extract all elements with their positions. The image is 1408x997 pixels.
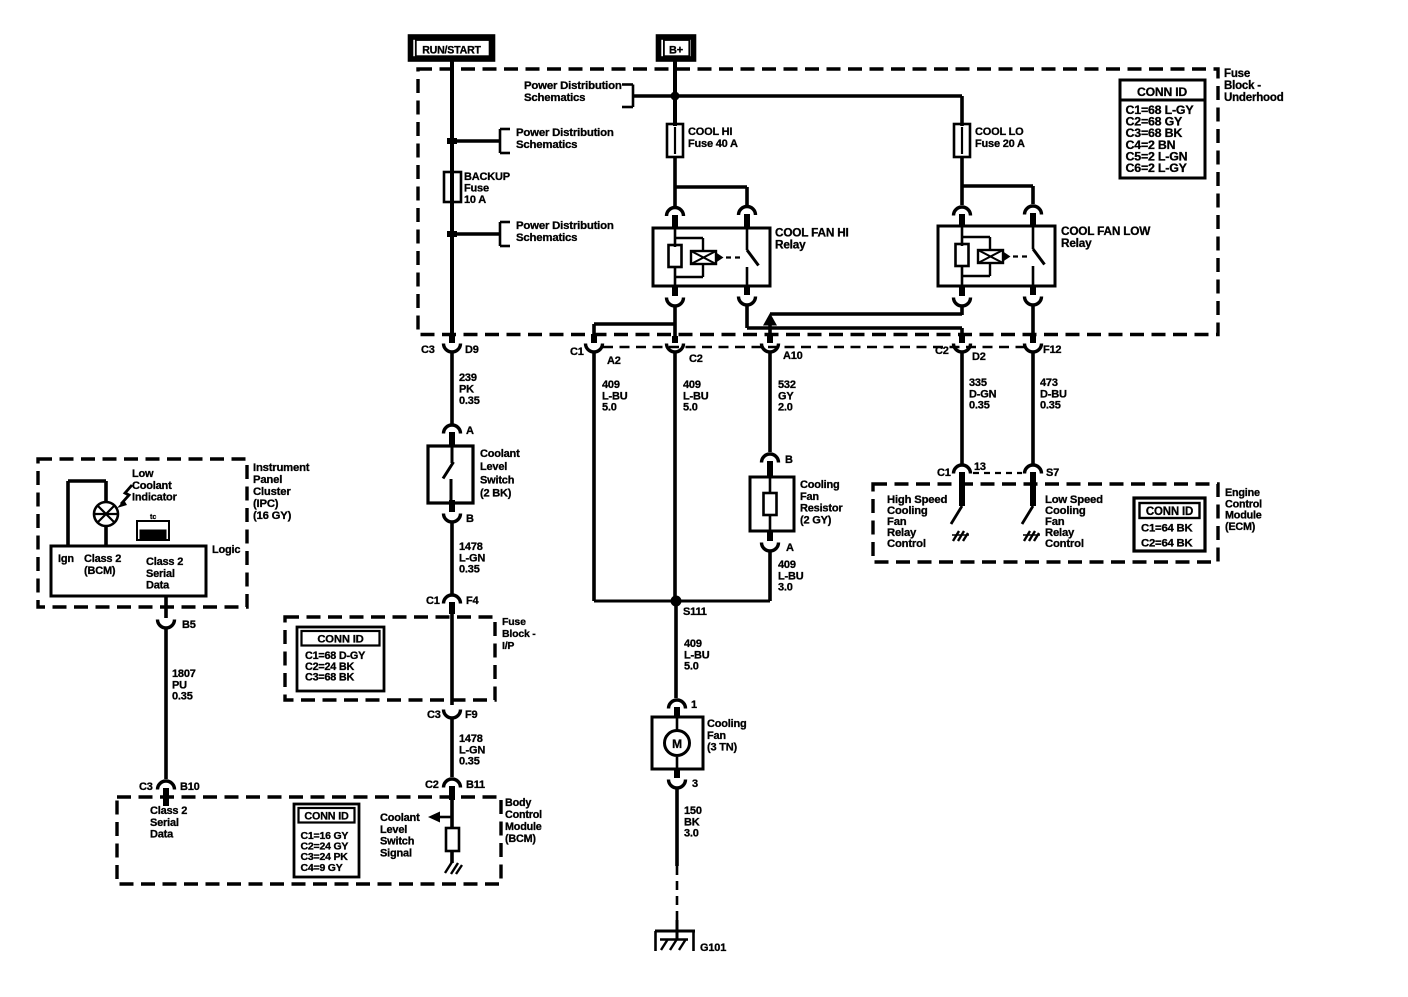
connector cap resistor pin B: [762, 454, 794, 477]
svg-text:CONN ID: CONN ID: [317, 634, 363, 646]
svg-text:0.35: 0.35: [459, 395, 480, 407]
svg-text:C1: C1: [426, 595, 440, 607]
svg-text:Cluster: Cluster: [253, 486, 291, 498]
conn id table underhood: [1120, 80, 1205, 178]
wire 1807 PU 0.35: [166, 628, 196, 779]
svg-text:Panel: Panel: [253, 474, 282, 486]
conn id table IP: [297, 627, 384, 691]
logic box IPC: [51, 546, 206, 596]
wire 409 L-BU 5.0 C2: [675, 352, 709, 601]
label class2 serial data IPC: [146, 556, 183, 592]
svg-text:D2: D2: [972, 351, 986, 363]
label fuse COOL HI: [688, 126, 738, 150]
svg-text:Switch: Switch: [380, 836, 415, 848]
indicator lamp low coolant: [94, 502, 118, 526]
svg-text:(BCM): (BCM): [505, 833, 536, 845]
connector cap fan pin 1: [669, 699, 698, 718]
svg-text:Schematics: Schematics: [516, 139, 577, 151]
relay COOL FAN HI switch: [747, 228, 759, 286]
label relay COOL FAN HI: [775, 226, 849, 252]
ground G101: [655, 920, 726, 954]
svg-text:(ECM): (ECM): [1225, 521, 1256, 533]
label IPC: [253, 462, 310, 522]
conn id table ECM: [1134, 498, 1205, 551]
relay COOL FAN LOW coil X-box: [978, 250, 1011, 263]
power feed RUN/START box: [411, 37, 493, 59]
svg-text:L-BU: L-BU: [602, 390, 628, 402]
svg-text:CONN ID: CONN ID: [304, 811, 349, 823]
relay COOL FAN LOW coil: [956, 226, 991, 286]
fuse BACKUP 10A: [444, 172, 461, 202]
svg-text:A10: A10: [783, 350, 803, 362]
svg-text:C3: C3: [421, 344, 435, 356]
svg-text:(BCM): (BCM): [84, 565, 116, 577]
wire COOL LO fuse to relay split: [962, 157, 1033, 205]
svg-text:Power Distribution: Power Distribution: [516, 220, 614, 232]
body control module dashed enclosure: [117, 797, 501, 884]
label coolant level switch: [480, 448, 520, 500]
wire 409 L-BU 5.0 A2: [594, 352, 628, 601]
wire indicator to logic: [104, 526, 108, 546]
svg-text:PU: PU: [172, 679, 187, 691]
connector cap relay LOW pin 30: [954, 207, 971, 226]
svg-text:Schematics: Schematics: [524, 92, 585, 104]
svg-text:Coolant: Coolant: [480, 448, 520, 460]
svg-text:(2 GY): (2 GY): [800, 514, 832, 526]
svg-text:Resistor: Resistor: [800, 503, 843, 515]
wire BCM resistor to ground: [450, 851, 454, 863]
fuse block underhood dashed enclosure: [418, 69, 1218, 335]
resistor BCM pullup: [446, 828, 459, 851]
svg-text:S111: S111: [683, 606, 707, 618]
svg-text:BK: BK: [684, 816, 700, 828]
junction tick 1: [447, 141, 457, 234]
svg-text:C3: C3: [427, 709, 441, 721]
svg-text:C3=68 BK: C3=68 BK: [305, 672, 355, 684]
svg-text:F12: F12: [1043, 344, 1061, 356]
svg-text:2.0: 2.0: [778, 402, 793, 414]
svg-text:1: 1: [691, 699, 697, 711]
svg-text:0.35: 0.35: [969, 400, 990, 412]
svg-text:CONN ID: CONN ID: [1146, 506, 1193, 518]
conn id table BCM: [294, 804, 359, 877]
junction tick B+ bus: [671, 92, 680, 101]
label class 2 serial data BCM: [150, 805, 187, 841]
svg-text:Low: Low: [132, 468, 154, 480]
connector cap relay HI pin 30: [667, 208, 684, 229]
svg-text:S7: S7: [1046, 467, 1059, 479]
svg-text:Fuse 40 A: Fuse 40 A: [688, 138, 738, 150]
svg-text:B: B: [466, 513, 474, 525]
svg-text:Block -: Block -: [502, 628, 536, 640]
svg-text:C2=64 BK: C2=64 BK: [1141, 538, 1194, 550]
svg-text:Control: Control: [887, 538, 926, 550]
wire 150 BK 3.0: [677, 787, 702, 866]
ground BCM internal: [445, 862, 462, 874]
label fuse BACKUP: [464, 171, 510, 206]
svg-text:0.35: 0.35: [459, 564, 480, 576]
label class2 bcm: [84, 553, 121, 577]
svg-text:Switch: Switch: [480, 474, 515, 486]
svg-text:5.0: 5.0: [602, 402, 617, 414]
label cooling fan: [707, 718, 747, 754]
svg-text:C3: C3: [139, 781, 153, 793]
svg-text:Fan: Fan: [800, 491, 819, 503]
svg-text:Fuse: Fuse: [1224, 68, 1250, 80]
connector C2 fan feed: [667, 336, 703, 365]
svg-text:Schematics: Schematics: [516, 232, 577, 244]
svg-text:B11: B11: [466, 779, 485, 791]
svg-text:C2: C2: [425, 779, 439, 791]
wire relay LOW coil output to F12: [1031, 305, 1035, 341]
svg-text:A: A: [466, 425, 474, 437]
svg-text:L-GN: L-GN: [459, 744, 485, 756]
svg-text:0.35: 0.35: [172, 691, 193, 703]
switch S coolant level contact: [443, 446, 454, 503]
indicator arrow: [117, 485, 132, 508]
svg-text:C4=9 GY: C4=9 GY: [301, 862, 343, 874]
connector cup relay LOW pin 86: [1025, 286, 1042, 305]
svg-text:C1: C1: [937, 467, 951, 479]
svg-text:409: 409: [684, 638, 702, 650]
svg-text:Control: Control: [505, 809, 542, 821]
wire relay HI coil output to C2-D2: [747, 305, 962, 341]
svg-text:Control: Control: [1045, 538, 1084, 550]
connector C1-F4: [426, 595, 480, 614]
svg-text:Level: Level: [480, 461, 507, 473]
branch wire to power distribution 2: [452, 222, 510, 246]
connector S7: [1025, 465, 1060, 479]
svg-text:Instrument: Instrument: [253, 462, 310, 474]
wire RUN/START down to connector C3-D9: [450, 60, 454, 341]
svg-text:3: 3: [692, 778, 698, 790]
label ign: [58, 553, 74, 565]
svg-text:Control: Control: [1225, 498, 1262, 510]
svg-text:D-BU: D-BU: [1040, 388, 1067, 400]
svg-text:Fuse 20 A: Fuse 20 A: [975, 138, 1025, 150]
svg-text:Data: Data: [150, 829, 174, 841]
relay COOL FAN LOW box: [938, 226, 1055, 286]
svg-text:Relay: Relay: [1061, 236, 1092, 250]
svg-text:C6=2 L-GY: C6=2 L-GY: [1126, 161, 1188, 175]
svg-text:M: M: [672, 737, 682, 751]
wire IPC ign feed: [68, 481, 106, 546]
wire splice bus: [594, 600, 770, 603]
svg-text:Fuse: Fuse: [464, 183, 489, 195]
connector F12: [1025, 336, 1062, 356]
relay COOL FAN LOW switch: [1033, 226, 1045, 286]
wire BCM internal: [450, 800, 454, 828]
ground ECM low speed: [1023, 531, 1040, 541]
relay COOL FAN HI coil X-box: [691, 251, 724, 264]
connector cup resistor pin A: [762, 531, 795, 554]
svg-text:0.35: 0.35: [1040, 400, 1061, 412]
svg-text:A2: A2: [607, 355, 621, 367]
connector B5: [158, 619, 196, 631]
svg-text:Underhood: Underhood: [1224, 92, 1284, 104]
label Fuse Block Underhood: [1224, 68, 1284, 104]
motor cooling fan box: [652, 717, 703, 769]
wire relay LOW switch output to A10: [770, 305, 962, 315]
svg-text:GY: GY: [778, 390, 794, 402]
svg-text:Coolant: Coolant: [132, 480, 172, 492]
svg-text:409: 409: [683, 379, 701, 391]
svg-text:13: 13: [974, 461, 986, 473]
ECM driver low speed switch: [1022, 472, 1033, 524]
wire 532 GY 2.0: [770, 352, 796, 452]
svg-text:Relay: Relay: [775, 238, 806, 252]
connector row dashed line: [603, 346, 1028, 348]
label fuse block IP: [502, 616, 536, 652]
connector C1-A2: [570, 334, 621, 367]
fuse block IP dashed enclosure: [285, 617, 495, 700]
ECM driver high speed switch: [951, 472, 962, 524]
label ECM: [1225, 487, 1262, 533]
svg-text:Class 2: Class 2: [146, 556, 183, 568]
ground ECM high speed: [952, 531, 969, 541]
wire 473 D-BU 0.35: [1033, 352, 1067, 464]
wire through fuse block IP: [450, 614, 454, 705]
wire 1478 L-GN 0.35 upper: [452, 521, 485, 594]
svg-text:L-GN: L-GN: [459, 552, 485, 564]
svg-text:C2: C2: [935, 345, 949, 357]
svg-text:239: 239: [459, 372, 477, 384]
svg-text:CONN ID: CONN ID: [1137, 85, 1187, 99]
connector cup fan pin 3: [669, 769, 699, 790]
ECM connector row dashed: [973, 472, 1022, 474]
branch wire to power distribution 1: [452, 129, 510, 153]
svg-text:PK: PK: [459, 384, 474, 396]
wire IPC to B5: [164, 596, 168, 618]
connector cup relay HI pin 86: [739, 286, 756, 305]
engine control module dashed enclosure: [873, 484, 1218, 562]
wire 409 L-BU 3.0: [770, 550, 804, 601]
svg-text:(2 BK): (2 BK): [480, 488, 512, 500]
svg-text:409: 409: [778, 559, 796, 571]
svg-text:L-BU: L-BU: [684, 649, 710, 661]
node arrow junction at A10: [763, 313, 777, 341]
wire B+ horizontal bus to power distribution and COOL LO: [622, 85, 962, 127]
svg-text:0.35: 0.35: [459, 756, 480, 768]
relay COOL FAN HI mechanical link dashed: [726, 256, 742, 258]
svg-text:F9: F9: [465, 709, 478, 721]
svg-text:Fuse: Fuse: [502, 616, 526, 628]
relay COOL FAN LOW mechanical link dashed: [1013, 255, 1029, 257]
connector C2-B11: [425, 779, 485, 800]
svg-text:B: B: [785, 454, 793, 466]
svg-text:(16 GY): (16 GY): [253, 510, 292, 522]
svg-text:(3 TN): (3 TN): [707, 742, 738, 754]
svg-text:L-BU: L-BU: [778, 570, 804, 582]
label power distribution 2: [516, 220, 614, 244]
svg-text:532: 532: [778, 379, 796, 391]
svg-text:1478: 1478: [459, 733, 483, 745]
svg-text:150: 150: [684, 805, 702, 817]
fuse COOL LO 20A: [954, 124, 970, 157]
svg-text:Logic: Logic: [212, 544, 240, 556]
svg-text:I/P: I/P: [502, 640, 514, 652]
motor cooling fan M: [665, 717, 690, 769]
svg-text:D9: D9: [465, 344, 479, 356]
svg-text:Power Distribution: Power Distribution: [524, 80, 622, 92]
svg-text:Indicator: Indicator: [132, 492, 178, 504]
svg-text:Fan: Fan: [707, 730, 726, 742]
svg-text:A: A: [786, 542, 794, 554]
label BCM: [505, 797, 542, 845]
svg-text:tc: tc: [150, 514, 156, 521]
label power distribution 1: [516, 127, 614, 151]
wire B+ down to COOL HI fuse: [673, 59, 677, 126]
connector cap relay HI pin 85: [739, 207, 756, 228]
svg-text:Class 2: Class 2: [84, 553, 121, 565]
relay COOL FAN HI coil: [669, 228, 704, 286]
wire 409 L-BU 5.0 to fan: [676, 601, 710, 698]
wire relay HI switch output to C1-A2 and C2: [594, 305, 675, 341]
svg-text:3.0: 3.0: [684, 828, 699, 840]
svg-text:3.0: 3.0: [778, 582, 793, 594]
svg-text:Level: Level: [380, 824, 407, 836]
wire COOL HI fuse to relay split: [675, 157, 747, 207]
connector cup relay LOW pin 87: [954, 286, 971, 306]
svg-text:Cooling: Cooling: [707, 718, 747, 730]
svg-text:1478: 1478: [459, 541, 483, 553]
svg-text:Block -: Block -: [1224, 80, 1261, 92]
svg-text:Ign: Ign: [58, 553, 74, 565]
svg-text:473: 473: [1040, 377, 1058, 389]
svg-text:BACKUP: BACKUP: [464, 171, 510, 183]
svg-text:Serial: Serial: [150, 817, 179, 829]
label fuse COOL LO: [975, 126, 1025, 150]
svg-text:Signal: Signal: [380, 847, 412, 859]
wire 335 D-GN 0.35: [962, 352, 997, 464]
svg-text:(IPC): (IPC): [253, 498, 279, 510]
svg-text:5.0: 5.0: [683, 402, 698, 414]
svg-text:L-BU: L-BU: [683, 390, 709, 402]
instrument panel cluster dashed enclosure: [38, 459, 247, 607]
label logic: [212, 544, 240, 556]
power feed B+ box: [659, 37, 694, 59]
fuse COOL HI 40A: [667, 124, 683, 157]
svg-text:COOL LO: COOL LO: [975, 126, 1024, 138]
svg-text:C1=64 BK: C1=64 BK: [1141, 523, 1194, 535]
svg-text:5.0: 5.0: [684, 661, 699, 673]
svg-text:Cooling: Cooling: [800, 479, 840, 491]
switch S coolant level box: [428, 446, 473, 503]
svg-text:10 A: 10 A: [464, 194, 486, 206]
svg-text:B+: B+: [669, 45, 683, 57]
connector cap relay LOW pin 85: [1025, 206, 1042, 226]
label cooling fan resistor: [800, 479, 843, 526]
svg-text:C1: C1: [570, 346, 584, 358]
connector C2-D2: [935, 336, 986, 363]
svg-text:Body: Body: [505, 797, 531, 809]
svg-text:Power Distribution: Power Distribution: [516, 127, 614, 139]
svg-text:RUN/START: RUN/START: [422, 45, 481, 57]
svg-text:B5: B5: [182, 619, 196, 631]
svg-text:G101: G101: [700, 942, 726, 954]
svg-text:Serial: Serial: [146, 568, 175, 580]
resistor cooling fan element: [764, 477, 777, 531]
connector cup switch pin B: [444, 500, 475, 525]
svg-text:Module: Module: [505, 821, 542, 833]
svg-text:Engine: Engine: [1225, 487, 1260, 499]
connector cap switch pin A: [444, 425, 475, 445]
wire dashed to G101: [676, 866, 679, 922]
svg-text:Data: Data: [146, 580, 170, 592]
wire 1478 L-GN 0.35 lower: [452, 718, 485, 777]
connector A10: [762, 336, 803, 362]
svg-text:Class 2: Class 2: [150, 805, 187, 817]
svg-text:COOL HI: COOL HI: [688, 126, 732, 138]
label power distribution 3: [524, 80, 622, 104]
label low speed cooling fan relay control: [1045, 494, 1103, 550]
label coolant level switch signal: [380, 812, 420, 859]
svg-text:B10: B10: [180, 781, 200, 793]
svg-text:Module: Module: [1225, 510, 1262, 522]
svg-text:Coolant: Coolant: [380, 812, 420, 824]
label relay COOL FAN LOW: [1061, 224, 1151, 250]
connector C3-B10: [139, 781, 200, 806]
label low coolant indicator: [132, 468, 178, 504]
svg-text:1807: 1807: [172, 668, 196, 680]
connector cup relay HI pin 87: [667, 286, 684, 306]
node S111: [671, 596, 707, 619]
wire coolant level switch signal arrow: [428, 812, 452, 823]
display icon IPC: [137, 514, 169, 540]
svg-text:335: 335: [969, 377, 987, 389]
svg-text:F4: F4: [466, 595, 480, 607]
connector C3-D9: [421, 334, 479, 356]
svg-text:C2: C2: [689, 353, 703, 365]
connector C1-13: [937, 461, 986, 479]
connector C3-F9: [427, 709, 478, 721]
relay COOL FAN HI box: [653, 228, 770, 286]
svg-text:D-GN: D-GN: [969, 388, 997, 400]
label high speed cooling fan relay control: [887, 494, 947, 550]
wire 239 PK 0.35: [452, 352, 480, 424]
resistor cooling fan box: [750, 477, 794, 531]
svg-text:409: 409: [602, 379, 620, 391]
